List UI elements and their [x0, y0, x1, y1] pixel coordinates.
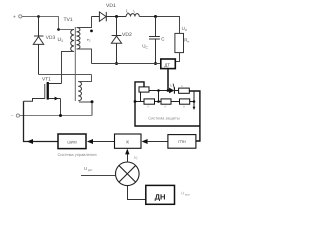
svg-text:VD2: VD2 [122, 32, 132, 38]
capacitor C [149, 17, 160, 64]
node rail2 right [193, 100, 196, 103]
wire circle to K with arrow [127, 154, 129, 162]
svg-text:R: R [148, 106, 150, 109]
diode VD1 [92, 12, 127, 21]
svg-text:R: R [181, 85, 183, 88]
svg-text:ДТ: ДТ [165, 62, 171, 67]
svg-text:R: R [183, 106, 185, 109]
control box DN divider [146, 185, 175, 204]
resistor R5 box5 [180, 99, 190, 104]
svg-text:e2: e2 [87, 37, 91, 43]
wire VT1 drain to primary [62, 52, 75, 84]
node VD1-VD2 [115, 15, 118, 18]
svg-text:ШИМ: ШИМ [67, 140, 76, 144]
node polarity dot secondary [90, 30, 93, 33]
arrow K to PWM [87, 139, 93, 144]
wire winding3 top lead [78, 75, 91, 82]
wire circle to DN [128, 186, 146, 200]
svg-text:R: R [165, 106, 167, 109]
wire K to PWM [93, 141, 115, 143]
svg-text:Система защиты: Система защиты [148, 116, 180, 121]
node C top [154, 15, 157, 18]
wire output ground rail [92, 63, 161, 65]
wire sense stub with arrow [193, 91, 195, 108]
wire L to C node to Rn corner [139, 17, 179, 34]
resistor R4 box4 [161, 99, 171, 104]
wire protection bottom loop [135, 82, 200, 126]
protection network outer loop [189, 91, 200, 141]
winding primary U1 [71, 30, 74, 52]
svg-text:TV1: TV1 [64, 17, 73, 23]
node VD2 bottom [115, 62, 118, 65]
wire VT1 source down [60, 99, 62, 116]
svg-text:−: − [11, 113, 14, 119]
wire VD3 anode to drain node and to winding 3 [39, 74, 92, 76]
svg-text:ДН: ДН [155, 192, 166, 201]
svg-text:Система управления: Система управления [57, 152, 96, 157]
thyristor T1 [169, 88, 174, 94]
node polarity dot winding3 [91, 100, 94, 103]
svg-text:VT1: VT1 [42, 77, 51, 83]
wire thyristor to R2 [174, 90, 178, 92]
resistor Rn load box [175, 33, 184, 52]
node VT1 source on rail [59, 114, 62, 117]
transformer TV1 core [74, 27, 76, 101]
svg-text:ГПН: ГПН [178, 140, 186, 144]
wire box1 bottom lead [140, 92, 142, 101]
wire Ureg input [81, 175, 116, 177]
control box GPN ramp generator [168, 135, 196, 149]
wire minus rail [20, 115, 93, 117]
node rail2 left [134, 100, 137, 103]
wire divider tap vertical [158, 91, 160, 102]
transistor VT1 [45, 82, 62, 100]
wire winding3 bottom lead [79, 102, 92, 116]
resistor R2 box2 [179, 88, 190, 93]
control box PWM [58, 134, 86, 149]
arrow GPN to K [142, 139, 148, 144]
resistor R1 box1 [139, 87, 149, 92]
wire row1 protection [149, 90, 169, 92]
node VD3 top [37, 15, 40, 18]
terminal + (input plus) [13, 15, 22, 21]
svg-text:К: К [126, 139, 129, 144]
winding 3 feedback [78, 82, 81, 101]
wire protection divider rail [135, 101, 194, 103]
wire secondary top lead [77, 17, 92, 28]
resistor R3 box3 [144, 99, 155, 104]
wire VT1 gate lead [24, 99, 45, 102]
summing comparator circle [116, 162, 140, 186]
svg-text:+: + [13, 15, 16, 21]
control box K comparator [115, 134, 142, 148]
svg-text:U вых: U вых [181, 191, 190, 197]
diode VD3 [33, 17, 43, 75]
wire Rn bottom to DT [175, 53, 179, 62]
wire GPN to K [148, 141, 168, 143]
node row1 tap [157, 89, 160, 92]
wire secondary bottom lead [77, 49, 92, 64]
node primary top [57, 28, 60, 31]
wire DT down to protection [167, 69, 169, 91]
svg-text:VD3: VD3 [46, 35, 56, 41]
wire top input rail [22, 17, 74, 30]
inductor L [126, 14, 139, 17]
winding secondary e2 [77, 28, 81, 50]
svg-text:iL: iL [133, 8, 136, 14]
tiny resistor labels [148, 85, 186, 109]
node rail2 tap [157, 100, 160, 103]
node thyristor anode [167, 89, 170, 92]
node C bottom [154, 62, 157, 65]
svg-text:VD1: VD1 [106, 3, 116, 9]
current sensor DT box [161, 59, 176, 69]
wire gate drive from PWM [24, 101, 59, 141]
arrow into gate corner [27, 139, 33, 144]
diode VD2 [111, 17, 121, 64]
